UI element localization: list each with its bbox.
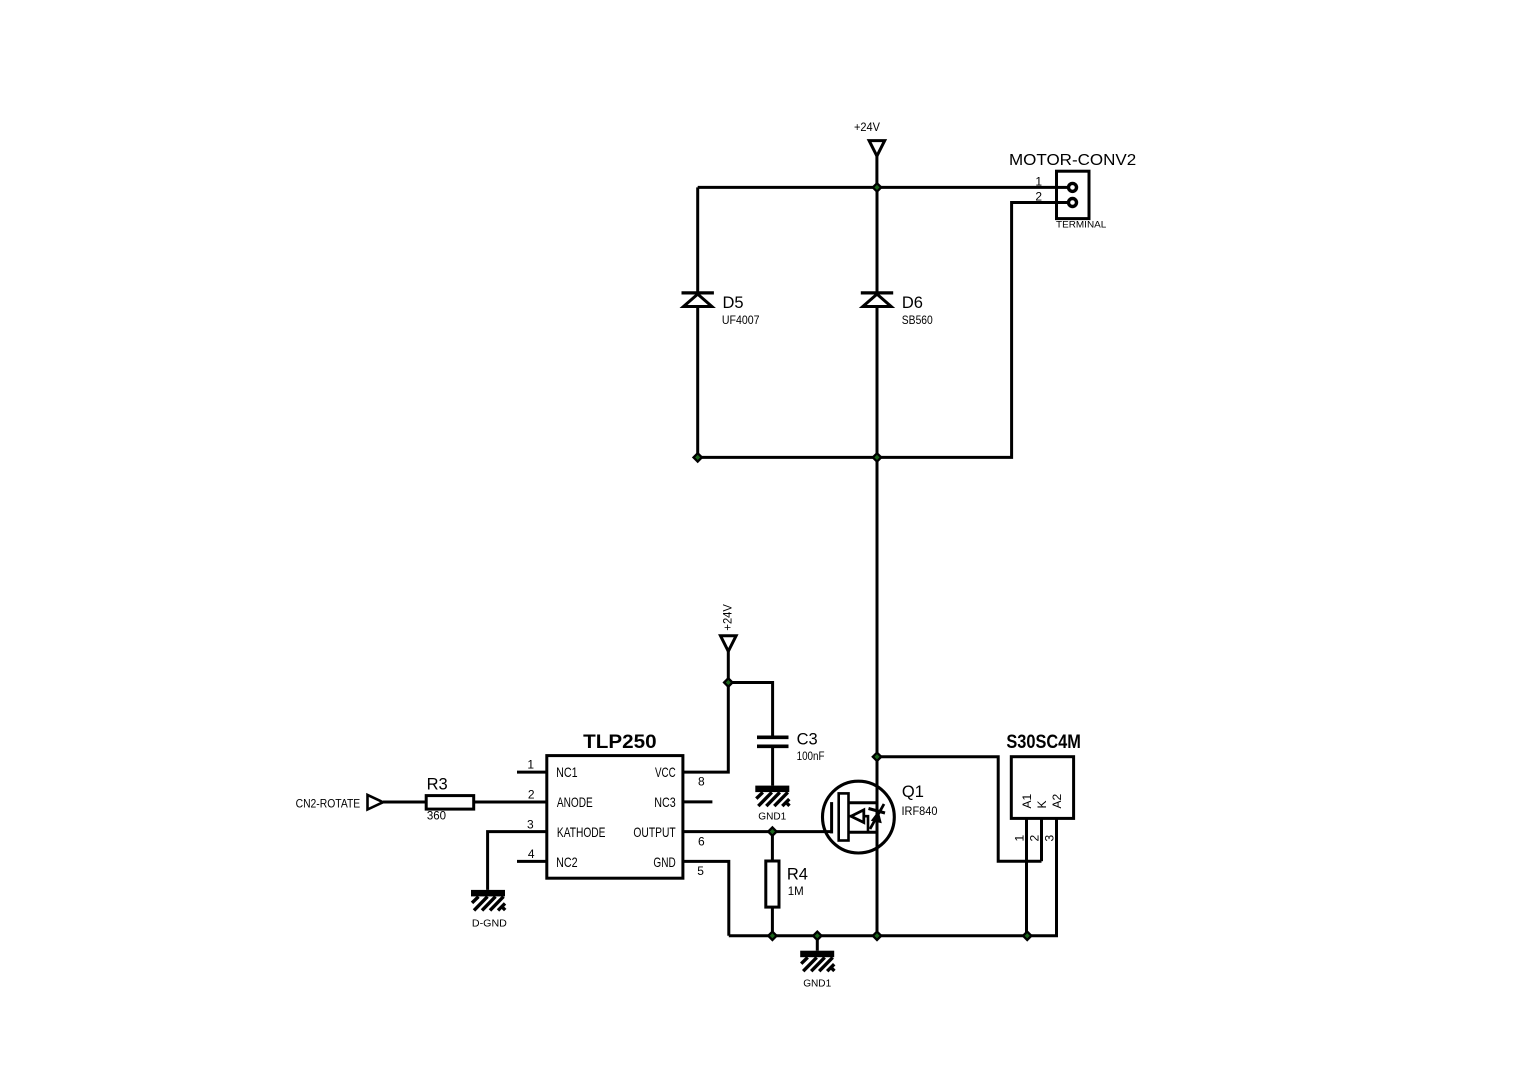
svg-text:D5: D5 [723,294,744,312]
svg-text:+24V: +24V [854,120,880,134]
transistor Q1 IRF840 [823,781,938,853]
svg-text:TLP250: TLP250 [583,731,657,753]
junction: D5 / mid rail [694,453,702,461]
connector MOTOR-CONV2 [1009,152,1136,231]
junction: +24V / top rail [873,183,881,191]
junction: D6 / mid rail [873,453,881,461]
svg-text:ANODE: ANODE [557,794,593,810]
svg-text:K: K [1035,800,1049,808]
ground D-GND [471,890,507,929]
svg-text:1M: 1M [788,886,804,898]
junction: GND1 tap / bottom rail [813,932,821,940]
wire: main drain vertical (through Q1) [876,757,879,936]
wire: C3 to GND1 [771,746,774,785]
resistor R3 [426,776,474,823]
svg-text:MOTOR-CONV2: MOTOR-CONV2 [1009,152,1136,169]
svg-text:R4: R4 [787,865,808,883]
wire: D5 anode drop [696,187,699,292]
wire: +24V to VCC and C3 [728,651,772,737]
wire: pin 6 OUTPUT to gate [683,830,832,833]
ground GND1 (bottom) [800,951,834,990]
svg-text:360: 360 [427,811,446,823]
svg-text:IRF840: IRF840 [902,806,938,818]
svg-text:C3: C3 [797,731,818,749]
svg-text:R3: R3 [427,776,448,794]
svg-text:NC2: NC2 [556,854,578,870]
ground GND1 (at C3) [755,786,789,823]
svg-text:D-GND: D-GND [472,917,507,929]
svg-text:4: 4 [528,847,535,861]
port CN2-ROTATE [296,795,383,810]
pin 2 K stub [1028,818,1042,861]
junction: gate wire / R4 [768,827,776,835]
svg-text:GND1: GND1 [803,977,831,989]
svg-text:3: 3 [1043,835,1057,842]
svg-text:KATHODE: KATHODE [557,824,606,840]
wire: R4 bottom to rail [771,907,774,936]
wire: main drain vertical (upper) [876,307,879,783]
IC U1 TLP250 [547,731,683,878]
svg-text:8: 8 [698,775,705,789]
svg-text:2: 2 [1035,190,1042,204]
svg-text:SB560: SB560 [902,315,933,327]
pin 7 stub NC3 [683,800,713,803]
wire: mid rail D5 to connector pin2 drop [698,203,1069,458]
wire: D6 anode drop [876,187,879,292]
capacitor C3 [757,731,825,763]
svg-text:NC1: NC1 [556,764,578,780]
pin 1 stub NC1 [517,757,547,772]
wire: R4 top branch [771,832,774,861]
svg-text:2: 2 [528,787,535,801]
resistor R4 [766,861,808,907]
svg-text:S30SC4M: S30SC4M [1006,731,1081,753]
junction: R4 / bottom rail [768,932,776,940]
svg-text:NC3: NC3 [654,794,676,810]
wire: drain to S30SC4M K [877,757,1042,861]
wire: +24V drop to top rail [875,155,878,187]
pin 5 wire GND to bottom rail [683,861,729,935]
wire: top rail from D5 to connector [698,186,1057,189]
pin 4 stub NC2 [517,847,547,861]
svg-text:OUTPUT: OUTPUT [633,824,676,840]
diode D6 [861,293,933,327]
svg-text:Q1: Q1 [902,783,924,801]
wire: R3 to pin 2 ANODE [474,801,547,804]
junction: Q1 source / bottom rail [873,932,881,940]
svg-text:GND1: GND1 [758,811,786,823]
svg-text:1: 1 [1035,174,1042,188]
svg-text:D6: D6 [902,294,923,312]
pin 3 A2 wire to rail [1043,818,1057,935]
svg-text:VCC: VCC [655,764,676,780]
svg-text:5: 5 [697,864,704,878]
wire: D5 to mid rail [696,307,699,458]
junction: S30SC4M A1 / bottom rail [1023,932,1031,940]
svg-text:2: 2 [1028,835,1042,842]
svg-text:GND: GND [653,854,675,870]
svg-text:+24V: +24V [721,604,735,631]
wire: VCC branch down to pin 8 [683,683,728,773]
svg-text:A2: A2 [1050,793,1064,808]
svg-text:TERMINAL: TERMINAL [1056,220,1106,231]
pin 1 A1 wire to rail [1013,818,1027,935]
power +24V top [854,120,885,156]
svg-text:100nF: 100nF [797,751,825,763]
svg-text:1: 1 [527,757,534,771]
wire: rail tap to GND1 [816,936,819,951]
wire: port to R3 [383,801,426,804]
junction: +24V / VCC / C3 [724,678,732,686]
diode module S30SC4M [1006,731,1081,818]
svg-text:6: 6 [698,835,705,849]
svg-text:A1: A1 [1020,793,1034,808]
junction: Q1 drain / S30SC4M K [873,753,881,761]
power +24V at VCC [721,604,737,651]
svg-text:CN2-ROTATE: CN2-ROTATE [296,796,361,810]
svg-text:3: 3 [527,818,534,832]
svg-text:UF4007: UF4007 [722,315,760,327]
diode D5 [682,293,760,327]
wire: pin 3 KATHODE to D-GND [488,832,547,890]
svg-text:1: 1 [1013,835,1027,842]
wire: bottom source rail [729,934,1058,937]
